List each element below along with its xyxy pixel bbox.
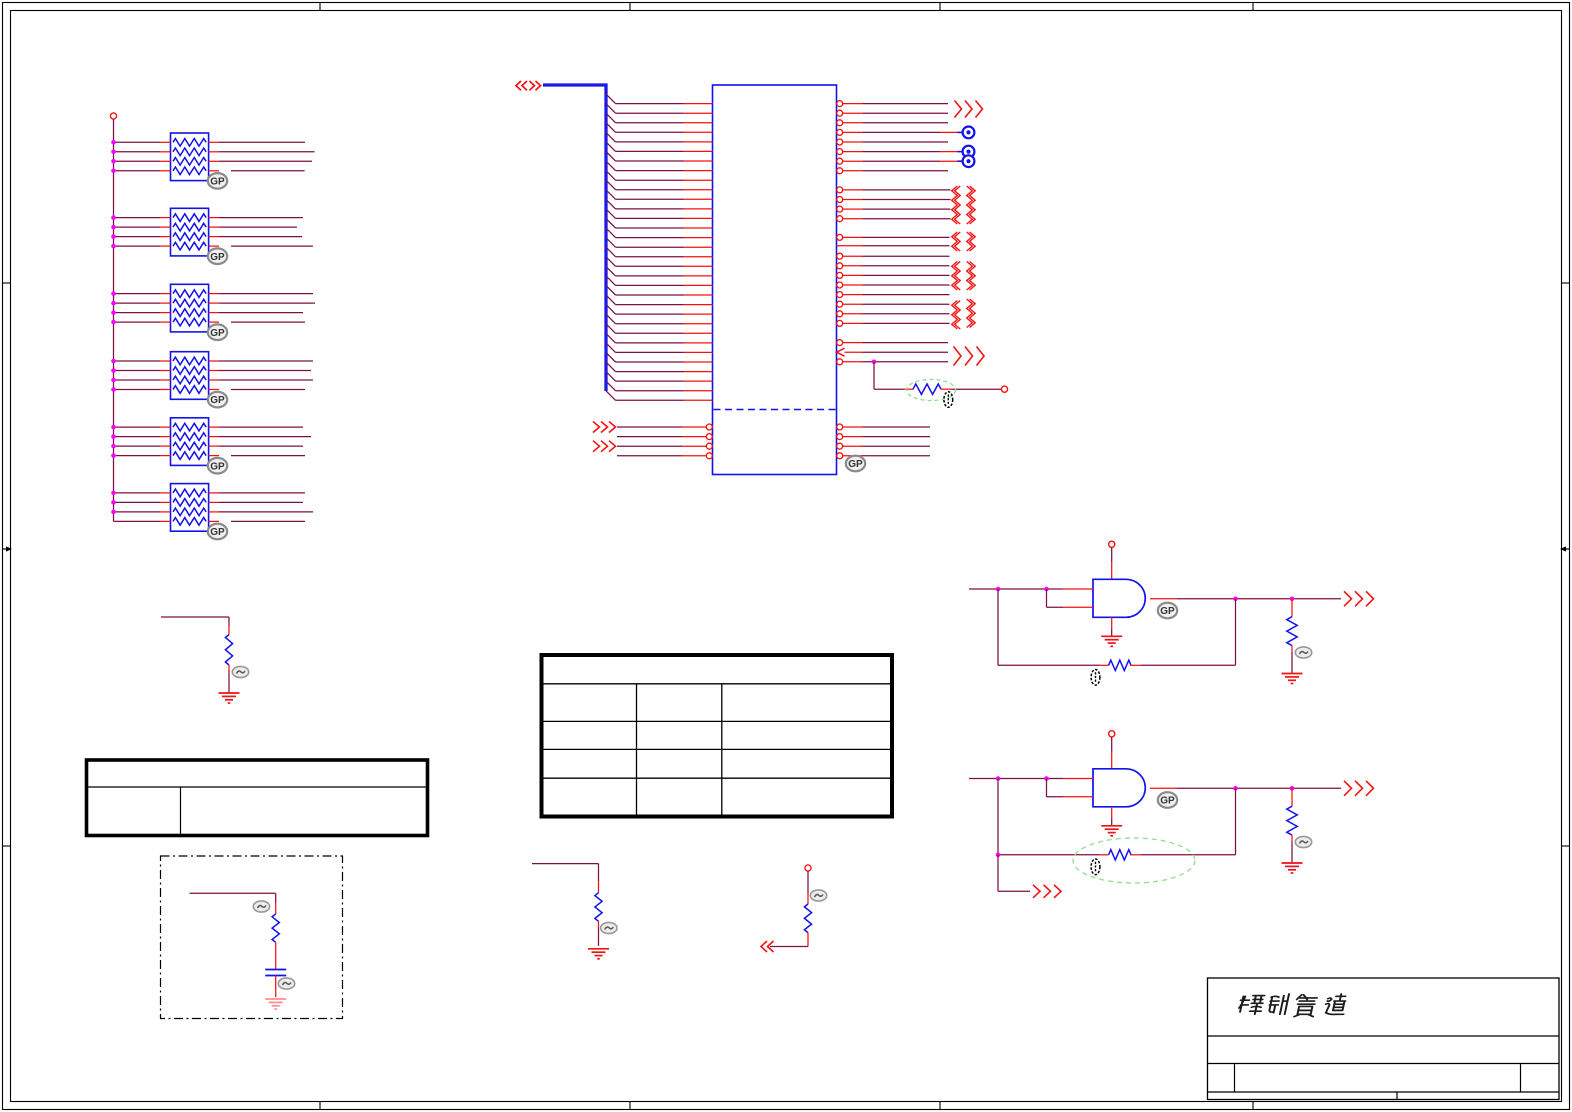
wire M3 to ground	[598, 927, 600, 946]
highlight ellipse green around R-IC	[907, 380, 956, 401]
wire IC left pin 6	[606, 142, 713, 152]
wire IC left pin 17	[606, 247, 713, 257]
resistor R-M3	[595, 881, 602, 927]
off-page chevrons bottom-left 1	[593, 422, 616, 433]
wire IC left pin 24	[606, 314, 713, 324]
IC U1 body	[713, 85, 837, 475]
wire IC left pin 27	[606, 343, 713, 353]
AND gate U-G2	[1093, 769, 1145, 807]
stamp value R-M2	[253, 901, 269, 912]
wire net M1	[161, 617, 229, 626]
wire M1 to ground	[228, 671, 230, 693]
stamp GP IC	[846, 456, 865, 472]
ground GND pd G1	[1282, 674, 1303, 684]
title block line 3	[1208, 1091, 1560, 1093]
wire IC left pin 12	[606, 199, 713, 209]
off-page chevrons M4 (left)	[761, 941, 774, 952]
svg-text:GP: GP	[210, 527, 225, 538]
svg-text:GP: GP	[210, 395, 225, 406]
wire net M2	[190, 893, 276, 902]
bus wire thick blue	[543, 85, 606, 391]
stamp value C-M2	[278, 978, 294, 989]
svg-text:GP: GP	[210, 461, 225, 472]
wire M2 to ground	[275, 976, 277, 998]
wire IC right pin A8	[837, 168, 948, 174]
wire IC bottom-left pin 2	[617, 434, 712, 440]
wire IC left pin 26	[606, 333, 713, 343]
wires RP1 pins	[111, 140, 314, 173]
resistor R-IC series	[904, 384, 952, 394]
resistor pack RP4	[171, 352, 209, 400]
wire IC left pin 14	[606, 219, 713, 229]
wire net M4 lower	[770, 940, 808, 947]
off-page chevrons G2 branch	[1033, 885, 1061, 898]
wire IC right pin A7 to connector	[837, 155, 975, 167]
stamp GP RP2	[208, 248, 227, 264]
resistor R-pd G1	[1287, 617, 1297, 652]
designator mark R-IC	[944, 392, 953, 408]
squiggle connector cluster 1	[952, 186, 976, 224]
capacitor C-M2	[265, 970, 286, 976]
stamp GP RP3	[208, 324, 227, 340]
wire IC right pin B4	[837, 216, 951, 222]
svg-text:GP: GP	[848, 459, 863, 470]
wire IC right pin D5	[837, 292, 950, 298]
wire feedback G1	[998, 589, 1100, 665]
wire IC right pin D1	[837, 253, 950, 259]
off-page chevrons bottom-left 2	[593, 441, 616, 452]
wire IC right pin A4 to connector	[837, 126, 975, 138]
wire IC left pin 25	[606, 324, 713, 334]
stamp value R-M1	[232, 666, 248, 677]
title block frame	[1208, 978, 1560, 1100]
highlight ellipse green around R-fb G2	[1073, 838, 1195, 883]
port open pin M4	[805, 865, 811, 871]
wire IC right pin D2	[837, 263, 950, 269]
ground GND pd G2	[1282, 863, 1303, 873]
stamp GP RP1	[208, 173, 227, 189]
ground GND-M1	[219, 693, 240, 703]
wire G2 down branch	[998, 855, 1030, 892]
wire gate gnd G2	[1111, 807, 1113, 826]
svg-text:GP: GP	[210, 252, 225, 263]
wire IC left pin 19	[606, 266, 713, 276]
squiggle connector cluster 3	[952, 262, 976, 291]
port open pin right of R	[1001, 386, 1007, 392]
resistor R-fb G1	[1100, 660, 1142, 670]
wire output G2	[1150, 786, 1341, 791]
wire IC left pin 23	[606, 305, 713, 315]
wire IC left pin 30	[606, 372, 713, 382]
port open pin VCC G2	[1109, 731, 1115, 737]
off-page chevrons output G2	[1344, 781, 1374, 796]
stamp GP RP5	[208, 458, 227, 474]
wires RP6 pins	[111, 491, 313, 522]
wire pulldown G1	[1291, 599, 1293, 617]
wire IC left pin 15	[606, 228, 713, 238]
wire IC left pin 4	[606, 123, 713, 133]
title block company name	[1238, 994, 1348, 1017]
wire IC left pin 8	[606, 161, 713, 171]
designator mark R-fb G2	[1091, 859, 1100, 875]
AND gate U-G1	[1093, 579, 1145, 617]
wire IC left pin 7	[606, 152, 713, 162]
ground GND gate G2	[1101, 826, 1122, 836]
wire IC left pin 2	[606, 104, 713, 114]
resistor R-M4	[804, 893, 811, 940]
off-page chevrons right F	[954, 347, 985, 366]
wire IC bottom-right pin 1	[837, 424, 930, 430]
wire IC right pin A5	[837, 139, 948, 145]
svg-text:GP: GP	[1160, 606, 1175, 617]
wire to port right	[952, 388, 1002, 390]
stamp GP RP6	[208, 524, 227, 540]
wire IC right pin A6 to connector	[837, 146, 975, 158]
wire IC bottom-left pin 1	[617, 424, 712, 430]
wire IC left pin 29	[606, 362, 713, 372]
wire IC left pin 1	[606, 94, 713, 104]
wire F3 branch down	[874, 362, 904, 389]
wire IC bottom-left pin 4	[617, 453, 712, 459]
wire feedback G2	[996, 779, 1100, 858]
wire IC right pin D8	[837, 320, 950, 326]
wire IC right pin B3	[837, 206, 951, 212]
wire M2 mid	[275, 950, 277, 970]
wire IC left pin 16	[606, 238, 713, 248]
wire IC right pin D3	[837, 272, 950, 278]
table T1 column line	[180, 787, 182, 834]
wires RP3 pins	[111, 291, 315, 324]
stamp value R-pd G1	[1295, 647, 1311, 658]
wire IC left pin 3	[606, 113, 713, 123]
squiggle connector cluster 2	[952, 232, 976, 251]
stamp value R-M4	[810, 890, 826, 901]
wire pulldown G2	[1291, 788, 1293, 806]
resistor pack RP1	[171, 133, 209, 181]
stamp GP G1	[1158, 603, 1177, 619]
table T2 row lines	[544, 684, 891, 778]
svg-text:GP: GP	[210, 328, 225, 339]
IC U1 internal dashed divider	[714, 409, 836, 411]
ground GND gate G1	[1101, 636, 1122, 646]
wire pulldown low G1	[1291, 652, 1293, 674]
wire IC right pin F3 with junction	[837, 359, 948, 365]
wire IC left pin 32	[606, 391, 713, 401]
resistor R-M2	[272, 902, 279, 950]
wires RP4 pins	[111, 359, 313, 392]
wire IC left pin 11	[606, 190, 713, 200]
wire IC right pin C2 (flush)	[837, 245, 950, 247]
title block line 1	[1208, 1035, 1560, 1037]
wire IC right pin A1	[837, 101, 948, 107]
wire IC left pin 18	[606, 257, 713, 267]
wire vertical bus left	[113, 119, 115, 521]
off-page chevrons output G1	[1344, 591, 1374, 606]
port P1 (top-left open pin)	[110, 113, 116, 119]
wire IC right pin C1	[837, 234, 950, 240]
wires RP2 pins	[111, 215, 313, 248]
ground GND-M2 (pale)	[265, 999, 286, 1009]
wire IC bottom-left pin 3	[617, 443, 712, 449]
wires RP5 pins	[111, 425, 311, 458]
wire VCC to gate G1	[1111, 547, 1113, 579]
svg-text:GP: GP	[1160, 796, 1175, 807]
stamp GP G2	[1158, 792, 1177, 808]
wire input2 G1	[1047, 589, 1094, 607]
resistor R-fb G2	[1100, 850, 1142, 860]
wire IC right pin D6	[837, 301, 950, 307]
stamp value R-pd G2	[1295, 836, 1311, 847]
wire feedback right G2	[1141, 788, 1236, 855]
designator mark R-fb G1	[1091, 670, 1100, 686]
squiggle connector cluster 4	[952, 299, 976, 329]
resistor R-pd G2	[1287, 806, 1297, 841]
wire IC left pin 13	[606, 209, 713, 219]
wire IC left pin 20	[606, 276, 713, 286]
resistor pack RP6	[171, 484, 209, 532]
wire IC left pin 21	[606, 286, 713, 296]
off-page chevrons right top	[955, 101, 983, 118]
wire IC left pin 28	[606, 353, 713, 363]
wire net M4 upper	[807, 871, 809, 893]
wire feedback right G1	[1141, 599, 1236, 666]
svg-text:GP: GP	[210, 177, 225, 188]
wire IC left pin 31	[606, 381, 713, 391]
wire IC bottom-right pin 2	[837, 434, 930, 440]
resistor pack RP3	[171, 284, 209, 332]
wire input1 G1	[969, 587, 1093, 592]
border left center arrow	[3, 546, 12, 551]
wire VCC to gate G2	[1111, 737, 1113, 769]
port open pin VCC G1	[1109, 541, 1115, 547]
stamp GP RP4	[208, 392, 227, 408]
wire IC right pin D7	[837, 311, 950, 317]
table T1 header line	[88, 786, 426, 788]
border right center arrow	[1560, 546, 1569, 551]
title block verticals	[1235, 1064, 1521, 1100]
wire IC left pin 10	[606, 180, 713, 190]
table T1 frame	[87, 760, 428, 836]
stamp value R-M3	[601, 922, 617, 933]
wire IC right pin D4	[837, 282, 950, 288]
title block line 2	[1208, 1063, 1560, 1065]
wire IC left pin 22	[606, 295, 713, 305]
wire output G1	[1150, 597, 1341, 602]
ground GND-M3	[588, 949, 609, 959]
wire pulldown low G2	[1291, 841, 1293, 863]
table T2 frame	[542, 655, 893, 817]
wire IC bottom-right pin 3	[837, 443, 930, 449]
wire IC right pin B1	[837, 187, 951, 193]
wire IC right pin F1	[837, 340, 948, 346]
wire IC right pin B2	[837, 197, 951, 203]
wire IC left pin 9	[606, 171, 713, 181]
dash-dot enclosure box	[161, 856, 343, 1019]
wire input2 G2	[1047, 779, 1094, 797]
wire gate gnd G1	[1111, 617, 1113, 636]
wire IC right pin A2	[837, 110, 948, 116]
table T2 column lines	[637, 684, 722, 815]
resistor pack RP5	[171, 418, 209, 466]
wire IC left pin 5	[606, 132, 713, 142]
wire IC right pin F2 (arrow pin)	[837, 348, 949, 356]
resistor R-M1	[225, 626, 232, 671]
wire net M3	[532, 864, 599, 881]
wire IC bottom-right pin 4	[837, 453, 930, 459]
wire input1 G2	[969, 776, 1093, 781]
wire IC right pin A3	[837, 120, 948, 126]
resistor pack RP2	[171, 208, 209, 256]
off-page port bus left chevrons	[516, 81, 541, 90]
